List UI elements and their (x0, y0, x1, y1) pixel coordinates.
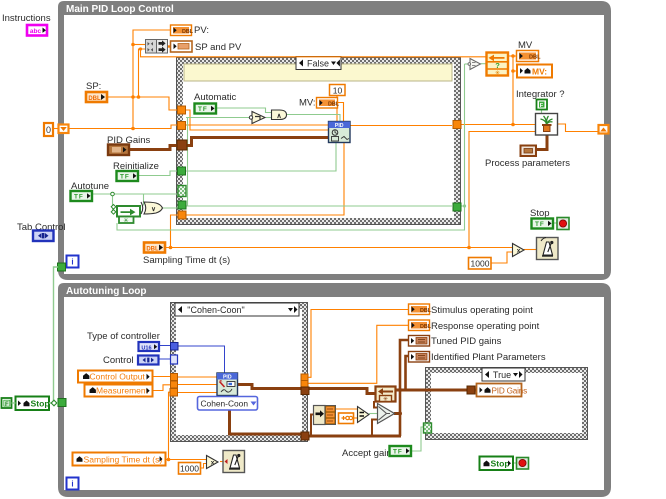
wire: Autotune to case selector (93, 193, 179, 195)
wire: tuned gains to feedback node (308, 389, 375, 394)
svg-text:True: True (493, 370, 511, 380)
wire: multiply to wait metronome (autotune) (220, 461, 223, 463)
control PID Gains (cluster) (108, 145, 129, 156)
tunnel (dt in) (170, 389, 178, 397)
control SP: (DBL) (86, 92, 107, 102)
feedback node (boolean, with initializer) (111, 205, 140, 225)
constant 1000 (autotune) (179, 463, 201, 475)
wait until next ms multiple vi (autotune) (223, 451, 245, 473)
wire: MV indicator nub to PID (338, 103, 344, 122)
indicator PV: (DBL) (171, 25, 194, 36)
feedback node (cluster, brown) (376, 387, 396, 404)
wire: setpoint rail to feedback node (along case top) (141, 49, 488, 57)
tunnel (response, right) (301, 381, 308, 388)
wire: ring constant to PID autotune (226, 395, 228, 397)
svg-text:PV:: PV: (194, 25, 209, 36)
control Autotune (TF) (71, 191, 93, 201)
svg-text:F: F (5, 402, 9, 408)
svg-text:MV:: MV: (299, 98, 316, 109)
svg-text:TF: TF (393, 449, 403, 456)
wire: branch to build array input 1 (133, 44, 146, 46)
svg-text:SP:: SP: (86, 81, 101, 92)
local variable Control Output (78, 371, 153, 383)
control Control (tab) (138, 356, 159, 365)
Not gate (249, 112, 265, 124)
wire: in-case PID gains to PID (186, 138, 329, 146)
svg-text:Stop: Stop (491, 459, 510, 469)
svg-text:?: ? (495, 61, 500, 70)
wire: index array input branch (311, 415, 313, 437)
local variable Sampling Time dt (s) (73, 453, 166, 466)
wire: Measurement local to case tunnel (153, 385, 172, 391)
tunnel (MV out, right border) (453, 121, 461, 129)
svg-text:DBL: DBL (328, 101, 340, 107)
wire: plant to process parameters constant (537, 135, 547, 150)
wire: feedback node to Or gate (140, 211, 142, 213)
indicator MV: (DBL, in case) (317, 98, 340, 109)
local variable PID Gains (write) (477, 384, 528, 397)
wire: SP branch to build array input 2 (139, 49, 147, 97)
wire: equals to select (369, 413, 377, 415)
svg-text:✳: ✳ (495, 69, 501, 77)
indicator Identified Plant Parameters (cluster) (409, 352, 430, 363)
control Automatic (TF) (195, 104, 217, 114)
svg-text:✳: ✳ (383, 396, 388, 403)
wire: index array to equals (336, 408, 358, 410)
svg-text:Sampling Time dt (s): Sampling Time dt (s) (84, 455, 163, 465)
plant vi (potted plant icon) (536, 114, 558, 136)
case structure True (autotuning loop) (425, 367, 588, 440)
equals node (358, 407, 370, 423)
svg-text:DBL: DBL (529, 55, 541, 61)
wire: PID autotune gains out (brown) (238, 385, 303, 389)
tunnel (Reinitialize) (178, 167, 186, 175)
constant F (Integrator) (537, 100, 548, 110)
index array node (314, 406, 336, 425)
wire: identified plant parameters rail (406, 356, 409, 390)
svg-text:PID: PID (223, 375, 232, 381)
svg-text:Integrator ?: Integrator ? (516, 89, 565, 100)
svg-text:✳: ✳ (123, 217, 129, 225)
case selector terminal (Control) (171, 355, 178, 364)
left shift register (59, 125, 69, 134)
svg-text:1000: 1000 (180, 464, 199, 474)
indicator Stimulus operating point (DBL) (409, 304, 432, 315)
True case selector terminal (424, 423, 432, 433)
select node (378, 404, 395, 424)
case selector label: "Cohen-Coon" (175, 303, 299, 316)
convert triangle (boolean to 0,1) (468, 59, 481, 70)
wire: in-case Measurement to PID (177, 384, 217, 386)
loop condition terminal (autotune) (517, 458, 529, 470)
control Type of controller (U16) (139, 342, 160, 352)
svg-text:Cohen-Coon: Cohen-Coon (201, 399, 249, 409)
wire: F to Stop local (12, 402, 16, 404)
constant 1000 (main) (469, 258, 492, 270)
svg-text:DBL: DBL (88, 96, 101, 102)
wire: in True case to PID Gains local (474, 389, 476, 392)
svg-text:TF: TF (74, 194, 84, 201)
wire: Integrator constant to plant (541, 109, 543, 113)
build array node (SP and PV) (146, 40, 168, 54)
wire: vertical branch to PV indicator (133, 30, 170, 129)
svg-text:DBL: DBL (146, 246, 159, 252)
tunnel (Control Output) (171, 374, 178, 381)
iteration terminal i (main loop) (67, 256, 79, 268)
wire: sampling time local to multiply (166, 459, 207, 461)
svg-text:Instructions: Instructions (2, 13, 51, 24)
svg-text:Sampling Time dt (s): Sampling Time dt (s) (143, 255, 230, 266)
iteration terminal i (autotuning loop) (67, 478, 79, 490)
wire: PID gains to case tunnel (129, 146, 177, 150)
while loop: Autotuning Loop (58, 283, 611, 497)
case structure "Cohen-Coon" (autotuning loop) (170, 302, 308, 442)
wire: branch to Or gate upper input (143, 194, 145, 206)
wire: Stop control to loop condition (553, 222, 557, 224)
svg-text:Main PID Loop Control: Main PID Loop Control (66, 4, 174, 15)
tunnel: stop into main loop (bottom border) (58, 263, 66, 271)
svg-text:Control: Control (103, 355, 134, 366)
tunnel (stimulus, right) (301, 374, 308, 381)
svg-text:Autotuning Loop: Autotuning Loop (66, 286, 147, 297)
wire: rail to convert triangle (465, 63, 470, 65)
control Sampling Time dt (s) (DBL) (144, 243, 165, 253)
wire: boolean into Not gate (186, 117, 249, 119)
wire: Control to case selector (158, 358, 171, 360)
wait until next ms multiple vi (main) (537, 238, 559, 260)
svg-text:TF: TF (535, 221, 545, 228)
wire: in-case PV to PID (185, 124, 329, 126)
tunnel (dt) (178, 211, 186, 219)
wire: sampling time control to multiply (165, 247, 512, 249)
constant 10 (330, 85, 346, 96)
wire: select output (394, 412, 400, 415)
wire: in-case plant params down and out (230, 395, 303, 434)
local variable Stop (read) (480, 457, 514, 471)
wire: Control Output local to case tunnel (153, 376, 172, 378)
wire: Accept gain to True case selector (411, 427, 424, 451)
svg-text:TF: TF (198, 106, 208, 113)
local variable MV: (517, 65, 552, 78)
wire: dt rail up to plant (469, 132, 536, 248)
wire: stimulus operating point (308, 310, 408, 378)
wire: 0 constant to left shift register (53, 128, 58, 130)
svg-text:∨: ∨ (151, 206, 156, 213)
indicator Response operating point (DBL) (409, 320, 432, 331)
multiply node (autotune) (207, 456, 219, 469)
And gate (272, 110, 287, 120)
wire: 1000 to multiply (autotune) (200, 464, 206, 469)
case selector terminal (178, 186, 186, 197)
svg-text:0: 0 (46, 125, 51, 135)
wire: feedback node initializer to select (374, 401, 377, 408)
svg-text:x: x (517, 248, 521, 255)
junction dots (brown) (398, 388, 402, 416)
wire: boolean rail right of case (117, 64, 465, 230)
tunnel: stop into autotuning loop (left border) (58, 399, 66, 407)
svg-text:Tuned PID gains: Tuned PID gains (431, 336, 502, 347)
wire: select output rail up to Tuned PID gains (400, 340, 408, 436)
tunnel (tuned gains, right) (301, 387, 309, 395)
wire: type of controller to case tunnel (159, 345, 172, 347)
svg-text:Process parameters: Process parameters (485, 158, 570, 169)
wire: +inf to equals (354, 417, 358, 419)
wire: in-case autotune boolean across (186, 205, 452, 207)
svg-text:U16: U16 (141, 346, 151, 352)
tunnel (U16) (171, 343, 179, 351)
yellow free label band inside case (184, 64, 452, 81)
wire: And output to PID auto input (286, 115, 340, 122)
wire: multiply to wait metronome (524, 249, 536, 251)
wire: in-case Control Output to PID (177, 376, 217, 378)
wire: PID output through case to plant (350, 125, 536, 126)
wire: MV rail up to MV indicator and local (508, 56, 517, 125)
control Tab Control (33, 231, 54, 242)
svg-text:PID Gains: PID Gains (492, 387, 528, 396)
wire: build array to SP and PV indicator (168, 45, 170, 47)
tunnel (SP) (178, 106, 186, 114)
case structure False (main loop) (176, 57, 461, 225)
svg-text:Accept gain: Accept gain (342, 448, 392, 459)
wire: in-case U16 to PID autotune (178, 346, 225, 373)
svg-text:TF: TF (120, 174, 130, 181)
wire: left shift register to case tunnel (plant value) (68, 125, 178, 129)
wire: 10 constant down to PID (336, 95, 338, 121)
wire: SP control to case tunnel (107, 97, 178, 110)
while loop: Main PID Loop Control (58, 1, 611, 280)
wire: Reinitialize to case tunnel (138, 171, 178, 176)
constant 0 (44, 123, 53, 136)
wire: bottom run to select false input (372, 420, 377, 437)
wire: autotune branch down to feedback node (113, 194, 117, 212)
svg-text:Stimulus operating point: Stimulus operating point (431, 305, 533, 316)
wire: in-case sampling time to PID dt (186, 143, 344, 215)
wire: boolean rail along case border (187, 118, 189, 207)
junction dot: boolean rail (463, 204, 466, 207)
svg-text:MV: MV (518, 40, 533, 51)
constant process parameters (cluster) (521, 146, 537, 157)
tunnel (autotune boolean) (178, 201, 186, 209)
tunnel (boolean out, right border) (453, 203, 461, 211)
local variable Stop (write, outer) (16, 397, 50, 411)
wire: sampling time branch into case (171, 215, 179, 248)
svg-text:Measurement: Measurement (96, 386, 149, 396)
svg-text:Type of controller: Type of controller (87, 331, 160, 342)
control Stop (TF) (532, 219, 554, 229)
tunnel (plant params, bottom right) (301, 432, 309, 440)
case selector label: True (482, 368, 525, 381)
wire: Not to And gate (266, 117, 271, 119)
tunnel (Measurement) (171, 381, 178, 388)
svg-text:Control Output: Control Output (90, 372, 146, 382)
svg-text:i: i (71, 258, 73, 267)
svg-text:SP and PV: SP and PV (195, 42, 242, 53)
PID vi (main) (329, 122, 351, 143)
control Instructions (string abc) (27, 25, 47, 36)
svg-text:i: i (71, 480, 73, 489)
tunnel (PID gains cluster) (177, 140, 187, 150)
loop condition terminal (main) (557, 218, 569, 230)
case selector label: False (296, 57, 341, 70)
svg-text:Automatic: Automatic (194, 92, 236, 103)
tunnels on Cohen-Coon case (170, 343, 309, 441)
wire: stop local to loop condition (autotune) (513, 462, 517, 464)
svg-text:False: False (307, 59, 329, 69)
wire: plant output to right shift register (558, 124, 600, 132)
wire: in-case SP to PID setpoint (185, 110, 329, 130)
control Accept gain (TF) (390, 446, 412, 456)
True case tunnel (gains in) (467, 386, 475, 394)
wire: convert triangle to feedback node enable (481, 63, 487, 65)
svg-text:∧: ∧ (276, 113, 281, 120)
control Reinitialize (TF) (117, 171, 139, 181)
svg-text:abc: abc (30, 28, 42, 35)
constant F (stop init) (2, 398, 12, 408)
right shift register (599, 125, 609, 134)
feedback node (DBL, with ? and initializer) (487, 53, 509, 78)
wire: plant params bottom run (308, 435, 401, 438)
PID autotune vi (217, 373, 238, 396)
wire: 1000 to multiply (main) (491, 252, 512, 263)
local variable Measurement (85, 385, 153, 397)
svg-text:1000: 1000 (471, 259, 490, 269)
svg-text:10: 10 (333, 86, 343, 96)
constant +inf (339, 413, 354, 424)
multiply node (main) (513, 244, 525, 257)
svg-text:PID: PID (335, 123, 344, 129)
wire: response operating point (308, 325, 408, 383)
indicator Tuned PID gains (cluster) (409, 336, 430, 347)
svg-text:Identified Plant Parameters: Identified Plant Parameters (431, 352, 546, 363)
Or gate (141, 202, 163, 214)
ring constant Cohen-Coon (198, 397, 258, 411)
tunnel (PV) (178, 122, 186, 130)
svg-text:x: x (211, 460, 215, 467)
wire: Automatic to And gate (216, 108, 271, 113)
indicator SP and PV (171, 41, 193, 52)
tunnels on False case left border (177, 106, 461, 219)
indicator MV (DBL) (517, 51, 542, 62)
wire: Or gate to case tunnel (157, 207, 179, 209)
svg-text:Response operating point: Response operating point (431, 321, 540, 332)
wire: stop rail to both loops (49, 267, 58, 403)
svg-text:DBL: DBL (182, 29, 194, 35)
svg-text:MV:: MV: (532, 67, 547, 77)
svg-text:Stop: Stop (31, 399, 50, 409)
wire: feedback node to True case (395, 389, 468, 392)
junction: stop rail (51, 400, 57, 406)
wire: in-case Reinitialize to PID (186, 143, 336, 171)
svg-text:"Cohen-Coon": "Cohen-Coon" (187, 305, 244, 315)
